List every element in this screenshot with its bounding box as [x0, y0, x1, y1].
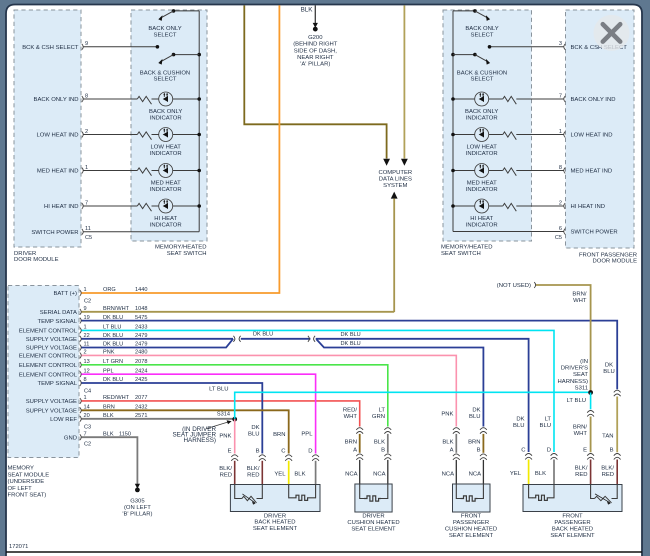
svg-text:SEAT: SEAT — [573, 372, 588, 378]
svg-text:INDICATOR: INDICATOR — [150, 151, 182, 157]
svg-text:SUPPLY VOLTAGE: SUPPLY VOLTAGE — [26, 346, 77, 352]
svg-text:MED HEAT IND: MED HEAT IND — [37, 169, 79, 175]
svg-text:BRN/: BRN/ — [573, 424, 587, 430]
footer separator line — [6, 551, 642, 553]
wire LT BLU long run from S314 column to S311 — [235, 392, 591, 419]
pin 1 / label MED HEAT IND (driver door module) — [82, 168, 83, 174]
svg-text:7: 7 — [85, 200, 88, 206]
pin 1 LT BLU 2433 / label ELEMENT CONTROL (memory seat module) — [80, 328, 81, 334]
module box: MEMORY/HEATED SEAT SWITCH (driver) — [131, 10, 207, 241]
svg-text:SWITCH POWER: SWITCH POWER — [31, 230, 78, 236]
svg-text:BACK ONLY IND: BACK ONLY IND — [571, 97, 616, 103]
svg-text:A: A — [353, 448, 357, 454]
svg-text:SELECT: SELECT — [471, 32, 494, 38]
wire DK BLU 2479 supply voltage pin 22 — [82, 338, 234, 340]
svg-text:INDICATOR: INDICATOR — [150, 222, 182, 228]
wire NCA into box3 (B) — [482, 460, 484, 484]
indicator row: HI HEAT INDICATOR (passenger) wire — [453, 205, 503, 207]
svg-text:CUSHION HEATED: CUSHION HEATED — [347, 520, 399, 526]
wire PNK from S314 to box1 pin E — [234, 419, 236, 453]
svg-text:SEAT ELEMENT: SEAT ELEMENT — [449, 533, 494, 539]
svg-text:SELECT: SELECT — [471, 77, 494, 83]
svg-text:BACK HEATED: BACK HEATED — [552, 527, 593, 533]
indicator row: BACK ONLY INDICATOR (passenger) wire — [453, 98, 503, 100]
svg-text:BACK ONLY: BACK ONLY — [465, 109, 498, 115]
pin 1 ORG 1440 / label BATT (+) (memory seat module) — [80, 290, 81, 296]
wire BLK/RED into front passenger back element (right) — [616, 460, 618, 485]
svg-text:WHT: WHT — [344, 414, 358, 420]
switch: BACK & CUSHION SELECT (passenger) — [451, 53, 455, 57]
LED: MED HEAT INDICATOR (passenger) — [475, 164, 489, 178]
svg-text:PASSENGER: PASSENGER — [453, 520, 489, 526]
svg-text:BACK & CUSHION: BACK & CUSHION — [140, 70, 190, 76]
svg-text:BLK/: BLK/ — [247, 466, 260, 472]
inline connector below S311 — [587, 411, 594, 417]
inline connector 2 on DK BLU 2479 — [308, 336, 315, 342]
wire TAN below connector to element pin B — [616, 397, 618, 453]
switch: BACK ONLY SELECT (driver) — [174, 10, 200, 12]
pin 7 BLK 1150 / label GND (memory seat module) — [80, 434, 81, 440]
wire: SWITCH POWER row (driver) — [84, 231, 200, 233]
wire DK BLU 2479 supply voltage pin 11 with jog — [82, 339, 234, 348]
pin 1 / label LOW HEAT IND (front passenger door module) — [564, 132, 565, 138]
element box: FRONT PASSENGER BACK HEATED SEAT ELEMENT — [523, 485, 622, 512]
svg-text:DK: DK — [605, 363, 613, 369]
resistor: LOW HEAT indicator (passenger) — [503, 132, 517, 140]
svg-text:S311: S311 — [575, 385, 588, 391]
svg-text:BRN/: BRN/ — [572, 292, 586, 298]
wire BRN/WHT from NOT USED to S311 — [536, 285, 591, 392]
thermistor meander: passenger back sensor — [533, 495, 550, 500]
svg-text:SEAT ELEMENT: SEAT ELEMENT — [550, 533, 595, 539]
svg-text:SEAT SWITCH: SEAT SWITCH — [167, 251, 207, 257]
arrow to S314 from harness note — [207, 422, 229, 429]
svg-text:INDICATOR: INDICATOR — [150, 115, 182, 121]
svg-text:C4: C4 — [84, 389, 91, 395]
wire BLK/RED into box1 (E) — [234, 461, 236, 485]
resistor: BACK ONLY indicator (passenger) — [503, 96, 517, 104]
svg-text:LOW HEAT: LOW HEAT — [467, 145, 498, 151]
svg-text:B: B — [256, 449, 260, 455]
wire BLK into box1 (D) — [315, 461, 317, 485]
svg-text:HI HEAT: HI HEAT — [154, 216, 177, 222]
pin 19 DK BLU 5475 / label TEMP SIGNAL (memory seat module) — [80, 318, 81, 324]
svg-text:RED/: RED/ — [343, 407, 357, 413]
svg-text:FRONT SEAT): FRONT SEAT) — [8, 493, 47, 499]
svg-text:C: C — [281, 449, 286, 455]
module box: DRIVER DOOR MODULE — [14, 10, 81, 247]
pin 8 DK BLU 2425 / label TEMP SIGNAL (memory seat module) — [80, 380, 81, 386]
svg-text:9: 9 — [85, 41, 88, 47]
wire BRN 2432 supply voltage to box1 pin C — [82, 410, 289, 453]
indicator row: HI HEAT INDICATOR (driver) wire — [84, 205, 138, 207]
splice S314 — [232, 417, 237, 422]
svg-text:SUPPLY VOLTAGE: SUPPLY VOLTAGE — [26, 409, 77, 415]
inline connector (box3 A) — [453, 428, 460, 434]
wire BLK/RED into box1 (B) — [261, 461, 263, 485]
pin 11 DK BLU 2479 / label SUPPLY VOLTAGE (memory seat module) — [80, 345, 81, 351]
svg-text:'A' PILLAR): 'A' PILLAR) — [300, 62, 330, 68]
indicator row: LOW HEAT INDICATOR (driver) wire — [84, 134, 138, 136]
svg-text:BLU: BLU — [603, 369, 614, 375]
LED: MED HEAT INDICATOR (driver) — [159, 164, 173, 178]
wire BLK into front passenger back element — [553, 460, 555, 485]
wire LT BLU 2433 element control to element pin D (passenger back) — [82, 330, 555, 452]
pin 1 RED/WHT 2077 / label SUPPLY VOLTAGE (memory seat module) — [80, 398, 81, 404]
svg-text:SUPPLY VOLTAGE: SUPPLY VOLTAGE — [26, 337, 77, 343]
svg-text:G305: G305 — [130, 499, 145, 505]
svg-text:(ON LEFT: (ON LEFT — [124, 505, 151, 511]
inline connector 2 (box3 B) — [480, 454, 487, 460]
svg-text:D: D — [308, 449, 312, 455]
svg-text:FRONT: FRONT — [562, 513, 583, 519]
svg-text:LOW HEAT IND: LOW HEAT IND — [571, 133, 613, 139]
svg-text:11: 11 — [85, 226, 91, 232]
inline connector (box1 B) — [259, 455, 266, 461]
pin 11 / label SWITCH POWER (driver door module) — [82, 229, 83, 235]
svg-text:BACK ONLY: BACK ONLY — [149, 109, 182, 115]
svg-text:HI HEAT IND: HI HEAT IND — [44, 204, 78, 210]
svg-text:BACK ONLY: BACK ONLY — [148, 26, 181, 32]
resistor: HI HEAT indicator (passenger) — [503, 203, 517, 211]
svg-text:DK BLU: DK BLU — [341, 341, 361, 347]
svg-text:1: 1 — [559, 129, 562, 135]
svg-text:HI HEAT IND: HI HEAT IND — [571, 204, 605, 210]
svg-text:MEMORY: MEMORY — [8, 466, 34, 472]
svg-text:DK BLU: DK BLU — [341, 332, 361, 338]
svg-text:YEL: YEL — [274, 472, 286, 478]
wire YEL into front passenger back element — [528, 460, 530, 485]
svg-text:BLK: BLK — [301, 7, 314, 14]
svg-text:8: 8 — [559, 165, 562, 171]
ground G305 — [135, 484, 140, 489]
wire: passenger switch bus vertical — [452, 11, 454, 232]
wire BLK 2571 low ref to splice S314 — [82, 418, 235, 420]
wire: serial data up-arrow into COMPUTER DATA LINES SYSTEM — [391, 192, 398, 199]
svg-text:C: C — [521, 448, 526, 454]
svg-text:C5: C5 — [85, 235, 92, 241]
svg-text:2: 2 — [559, 200, 562, 206]
variable resistor: driver back heater — [242, 496, 257, 503]
wire: driver switch bus vertical — [198, 11, 200, 232]
pin 7 / label HI HEAT IND (driver door module) — [82, 203, 83, 209]
wire RED/WHT 2077 supply voltage to box2 pin A — [82, 401, 360, 427]
pin 20 BLK 2571 / label LOW REF (memory seat module) — [80, 416, 81, 422]
wire BLK middle segment (box3 A) — [455, 434, 457, 453]
wire NCA into box2 (B) — [387, 460, 389, 484]
svg-text:SEAT SWITCH: SEAT SWITCH — [441, 251, 481, 257]
svg-text:INDICATOR: INDICATOR — [466, 222, 498, 228]
pin 2 / label HI HEAT IND (front passenger door module) — [564, 203, 565, 209]
switch: BACK & CUSHION SELECT (driver) — [197, 53, 201, 57]
module box: FRONT PASSENGER DOOR MODULE — [566, 10, 635, 248]
svg-text:BATT (+): BATT (+) — [53, 291, 77, 297]
inline connector on DK BLU to box3 pin B — [480, 428, 487, 434]
svg-text:MEMORY/HEATED: MEMORY/HEATED — [441, 245, 493, 251]
svg-text:MED HEAT IND: MED HEAT IND — [571, 169, 613, 175]
svg-text:HI HEAT: HI HEAT — [470, 216, 493, 222]
pin 2 PNK 2480 / label ELEMENT CONTROL (memory seat module) — [80, 353, 81, 359]
internal wiring driver back element — [235, 485, 242, 499]
svg-text:HARNESS): HARNESS) — [183, 437, 216, 444]
inline connector on DK BLU 5475 (vertical) — [614, 390, 621, 396]
resistor: MED HEAT indicator (passenger) — [503, 168, 517, 176]
svg-text:2: 2 — [85, 129, 88, 135]
inline connector above element pin E — [587, 454, 594, 460]
inline connector 2 (box2 A) — [356, 454, 363, 460]
svg-text:LT: LT — [379, 407, 386, 413]
svg-text:ELEMENT CONTROL: ELEMENT CONTROL — [19, 363, 78, 369]
pin 8 / label BACK ONLY IND (driver door module) — [82, 96, 83, 102]
LED: LOW HEAT INDICATOR (passenger) — [475, 128, 489, 142]
svg-text:ELEMENT CONTROL: ELEMENT CONTROL — [19, 329, 78, 335]
wire YEL into box1 (C) — [288, 461, 290, 485]
splice S311 — [588, 390, 593, 395]
inline connector (box1 C) — [285, 455, 292, 461]
pin 9 BRN/WHT 1048 / label SERIAL DATA (memory seat module) — [80, 309, 81, 315]
wire LT BLU below S311 — [590, 393, 592, 410]
svg-text:NEAR RIGHT: NEAR RIGHT — [297, 55, 334, 61]
svg-text:PNK: PNK — [441, 412, 453, 418]
pin 12 PPL 2424 / label ELEMENT CONTROL (memory seat module) — [80, 371, 81, 377]
svg-text:(IN: (IN — [580, 359, 588, 365]
svg-text:ELEMENT CONTROL: ELEMENT CONTROL — [19, 372, 78, 378]
LED: BACK ONLY INDICATOR (passenger) — [475, 92, 489, 106]
resistor: HI HEAT indicator (driver) — [137, 203, 151, 211]
svg-text:DK: DK — [472, 407, 480, 413]
variable resistor: passenger back heater — [595, 496, 612, 503]
svg-text:B: B — [381, 448, 385, 454]
indicator row: BACK ONLY INDICATOR (driver) wire — [84, 98, 138, 100]
element box: DRIVER CUSHION HEATED SEAT ELEMENT — [355, 484, 392, 512]
svg-text:DRIVER: DRIVER — [264, 513, 286, 519]
svg-text:BCK & CSH SELECT: BCK & CSH SELECT — [22, 45, 79, 51]
svg-text:CUSHION HEATED: CUSHION HEATED — [445, 527, 497, 533]
svg-text:SUPPLY VOLTAGE: SUPPLY VOLTAGE — [26, 399, 77, 405]
svg-text:NCA: NCA — [469, 472, 482, 478]
svg-text:3: 3 — [559, 41, 562, 47]
svg-text:RED: RED — [220, 472, 232, 478]
inline connector (box2 A) — [356, 428, 363, 434]
wire BRN/WHT 1048 serial data — [82, 311, 395, 313]
svg-text:MED HEAT: MED HEAT — [467, 181, 497, 187]
wire: data line (dark) from top to COMPUTER DATA LINES SYSTEM — [244, 5, 386, 158]
ground G200 — [313, 23, 318, 28]
svg-text:B: B — [477, 448, 481, 454]
svg-text:BLK: BLK — [374, 439, 385, 445]
pin 13 LT GRN 2078 / label ELEMENT CONTROL (memory seat module) — [80, 362, 81, 368]
svg-text:DRIVER: DRIVER — [14, 251, 36, 257]
svg-text:INDICATOR: INDICATOR — [466, 151, 498, 157]
svg-text:BLU: BLU — [513, 423, 524, 429]
svg-text:SEAT ELEMENT: SEAT ELEMENT — [351, 527, 396, 533]
svg-text:BLK: BLK — [442, 439, 453, 445]
thermistor meander: passenger cushion sensor — [461, 496, 478, 501]
svg-text:GRN: GRN — [372, 414, 385, 420]
svg-text:SYSTEM: SYSTEM — [383, 183, 407, 189]
svg-text:BRN: BRN — [345, 439, 357, 445]
switch: BACK ONLY SELECT (passenger) — [453, 10, 475, 12]
svg-text:B: B — [610, 448, 614, 454]
svg-text:ELEMENT CONTROL: ELEMENT CONTROL — [19, 354, 78, 360]
wire BLK 1150 GND to G305 — [82, 437, 138, 485]
svg-text:PPL: PPL — [301, 432, 313, 438]
pin arc (NOT USED) — [534, 282, 535, 288]
wire DK BLU 5475 temp signal to S311 side — [82, 321, 618, 390]
inline connector (box1 D) — [312, 455, 319, 461]
resistor: MED HEAT indicator (driver) — [137, 168, 151, 176]
svg-text:DOOR MODULE: DOOR MODULE — [14, 257, 59, 263]
svg-text:D: D — [547, 448, 551, 454]
LED: BACK ONLY INDICATOR (driver) — [159, 92, 173, 106]
wire ORG 1440 BATT(+) — [82, 5, 280, 293]
svg-text:LT: LT — [545, 416, 552, 422]
svg-text:HARNESS): HARNESS) — [558, 379, 588, 385]
svg-text:SERIAL DATA: SERIAL DATA — [40, 310, 77, 316]
svg-text:E: E — [228, 449, 232, 455]
wire BLK/RED into front passenger back element (left) — [590, 460, 592, 485]
wire: SWITCH POWER row (passenger) — [453, 231, 564, 233]
svg-text:RED: RED — [575, 472, 587, 478]
svg-text:INDICATOR: INDICATOR — [150, 187, 182, 193]
svg-text:BLU: BLU — [540, 423, 551, 429]
svg-text:SWITCH POWER: SWITCH POWER — [571, 230, 618, 236]
svg-text:MEMORY/HEATED: MEMORY/HEATED — [155, 245, 207, 251]
svg-text:INDICATOR: INDICATOR — [466, 187, 498, 193]
svg-text:LT BLU: LT BLU — [567, 398, 586, 404]
pin 7 / label BACK ONLY IND (front passenger door module) — [564, 96, 565, 102]
inline connector (box1 E) — [231, 455, 238, 461]
svg-text:TEMP SIGNAL: TEMP SIGNAL — [38, 381, 78, 387]
wire: pin 3 common line into switch (passenger) — [490, 46, 564, 48]
svg-text:7: 7 — [559, 93, 562, 99]
wire NCA into box2 (A) — [359, 460, 361, 484]
inline connector above element pin D — [551, 454, 558, 460]
svg-text:LOW HEAT: LOW HEAT — [151, 145, 182, 151]
svg-text:INDICATOR: INDICATOR — [466, 115, 498, 121]
svg-text:6: 6 — [559, 226, 562, 232]
svg-text:PNK: PNK — [219, 433, 231, 439]
LED: HI HEAT INDICATOR (driver) — [159, 199, 173, 213]
wire DK BLU 2425 temp signal to box1 pin B — [82, 383, 263, 454]
svg-text:FRONT: FRONT — [461, 513, 482, 519]
svg-text:E: E — [583, 448, 587, 454]
element box: DRIVER BACK HEATED SEAT ELEMENT — [230, 485, 320, 512]
inline connector above element pin C — [525, 454, 532, 460]
svg-text:C5: C5 — [555, 235, 562, 241]
svg-text:(BEHIND RIGHT: (BEHIND RIGHT — [293, 42, 338, 48]
module box: MEMORY/HEATED SEAT SWITCH (passenger) — [443, 10, 532, 241]
internal wiring passenger cushion element — [456, 484, 460, 499]
resistor: LOW HEAT indicator (driver) — [137, 132, 151, 140]
svg-text:C3: C3 — [84, 424, 91, 430]
svg-text:SEAT ELEMENT: SEAT ELEMENT — [253, 526, 298, 532]
svg-text:8: 8 — [85, 93, 88, 99]
svg-text:DK BLU: DK BLU — [253, 332, 273, 338]
inline connector 2 (box3 A) — [453, 454, 460, 460]
svg-text:DK: DK — [516, 416, 524, 422]
svg-text:DRIVER: DRIVER — [362, 513, 384, 519]
inline connector above element pin B — [614, 454, 621, 460]
wire DK BLU 2479 to element pin C (passenger back) — [316, 339, 529, 452]
svg-text:LT BLU: LT BLU — [209, 386, 228, 392]
svg-text:SEAT MODULE: SEAT MODULE — [8, 472, 50, 478]
svg-text:C2: C2 — [84, 442, 91, 448]
svg-text:BACK ONLY: BACK ONLY — [465, 26, 498, 32]
pin 2 / label LOW HEAT IND (driver door module) — [82, 132, 83, 138]
wire: data line (tan) from top to COMPUTER DATA LINES SYSTEM — [403, 5, 405, 158]
svg-text:172071: 172071 — [9, 544, 28, 550]
wire: BLK to G200 — [314, 5, 316, 24]
module box: MEMORY SEAT MODULE — [8, 286, 79, 458]
wire DK BLU 2479 merged line — [241, 338, 311, 340]
inline connector 2 (box2 B) — [384, 454, 391, 460]
svg-text:YEL: YEL — [510, 471, 522, 477]
indicator row: MED HEAT INDICATOR (driver) wire — [84, 170, 138, 172]
svg-text:BLU: BLU — [469, 414, 480, 420]
svg-text:BRN: BRN — [273, 432, 285, 438]
svg-text:BLK/: BLK/ — [219, 466, 232, 472]
svg-text:WHT: WHT — [573, 298, 587, 304]
resistor: BACK ONLY indicator (driver) — [137, 96, 151, 104]
svg-text:TAN: TAN — [602, 433, 613, 439]
close button X overlay — [594, 15, 630, 51]
svg-text:(NOT USED): (NOT USED) — [497, 283, 531, 289]
wire DK BLU 2479 branch jog down — [317, 339, 484, 426]
svg-text:C2: C2 — [84, 299, 91, 305]
svg-text:1: 1 — [85, 165, 88, 171]
thermistor meander: driver back sensor — [293, 495, 310, 500]
wire BRN middle segment (box2 A) — [359, 434, 361, 453]
svg-text:MED HEAT: MED HEAT — [151, 181, 181, 187]
wire PPL 2424 element control to box1 pin D — [82, 374, 316, 453]
svg-text:(UNDERSIDE: (UNDERSIDE — [8, 479, 45, 485]
wire BLK middle segment (box2 B) — [387, 434, 389, 453]
wire LT GRN 2078 element control to box2 pin B — [82, 365, 388, 427]
element box: FRONT PASSENGER CUSHION HEATED SEAT ELEMENT — [453, 484, 491, 512]
pin 6 / label SWITCH POWER (front passenger door module) — [564, 229, 565, 235]
svg-text:SELECT: SELECT — [154, 32, 177, 38]
svg-text:NCA: NCA — [345, 472, 358, 478]
wire PNK 2480 element control to box3 pin A — [82, 355, 457, 426]
svg-text:DK: DK — [251, 425, 259, 431]
svg-text:COMPUTER: COMPUTER — [378, 170, 412, 176]
svg-text:BLK: BLK — [294, 472, 305, 478]
svg-text:RED: RED — [247, 472, 259, 478]
svg-text:WHT: WHT — [574, 431, 588, 437]
svg-text:LOW REF: LOW REF — [50, 417, 77, 423]
svg-text:NCA: NCA — [373, 472, 386, 478]
svg-text:PASSENGER: PASSENGER — [554, 520, 590, 526]
indicator row: MED HEAT INDICATOR (passenger) wire — [453, 170, 503, 172]
svg-text:BLK: BLK — [535, 471, 546, 477]
thermistor meander: driver cushion sensor — [364, 496, 381, 501]
svg-text:S314: S314 — [217, 411, 230, 417]
internal wiring driver cushion element — [360, 484, 364, 499]
svg-text:DATA LINES: DATA LINES — [379, 177, 412, 183]
pin 9 / label BCK & CSH SELECT (driver door module) — [82, 44, 83, 50]
svg-text:BACK ONLY IND: BACK ONLY IND — [34, 97, 79, 103]
inline connector (box2 B) — [384, 428, 391, 434]
wire NCA into box3 (A) — [455, 460, 457, 484]
svg-text:BACK HEATED: BACK HEATED — [254, 520, 295, 526]
svg-text:BLK/: BLK/ — [575, 465, 588, 471]
inline connector S-joint on DK BLU 2479 — [233, 336, 240, 342]
svg-text:DOOR MODULE: DOOR MODULE — [592, 258, 637, 264]
svg-text:BRN: BRN — [468, 439, 480, 445]
svg-text:GND: GND — [64, 435, 77, 441]
LED: HI HEAT INDICATOR (passenger) — [475, 199, 489, 213]
